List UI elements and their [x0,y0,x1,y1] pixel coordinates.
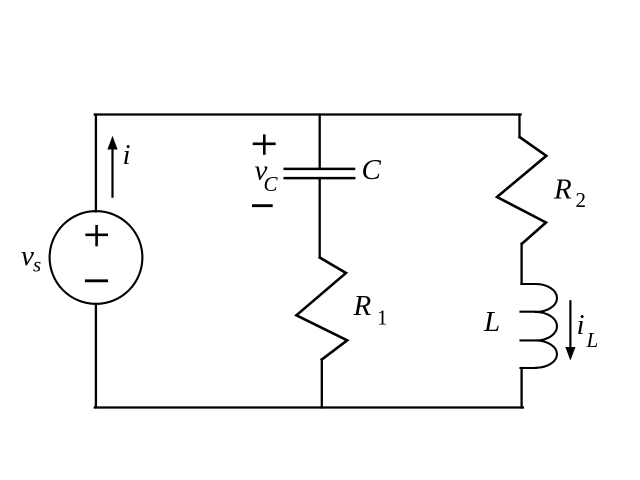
plus sign above capacitor [254,136,274,154]
svg-text:1: 1 [377,306,388,330]
wire middle mid [319,178,321,257]
svg-text:C: C [362,154,382,186]
wire right top [518,115,520,138]
svg-text:L: L [586,328,599,352]
inductor L coil 1 [521,284,557,312]
svg-text:i: i [123,139,131,171]
svg-text:s: s [33,253,41,277]
current arrow iL [565,300,575,360]
minus sign below vC [253,204,271,207]
resistor R1 zigzag [296,258,347,360]
wire left top [95,115,97,212]
svg-text:L: L [483,306,500,338]
svg-text:i: i [577,309,585,341]
wire middle bottom [321,360,323,408]
resistor R2 zigzag [497,137,546,244]
svg-text:R: R [553,174,572,206]
plus sign inside source [87,226,107,245]
inductor bottom tail [521,367,536,369]
capacitor C top plate [285,168,354,171]
svg-text:R: R [353,290,372,322]
minus sign inside source [86,279,106,282]
inductor L coil 2 [536,312,557,341]
inductor cusp tick 2 [521,339,536,341]
current arrow i [107,136,117,198]
wire right bottom [520,368,522,408]
wire left bottom [95,304,97,408]
inductor cusp tick 1 [521,311,536,313]
capacitor C bottom plate [285,177,355,180]
wire bottom rail [95,406,523,408]
inductor L coil 3 [536,341,557,368]
wire right mid [520,244,522,283]
voltage source vs circle [50,211,143,304]
svg-text:C: C [264,172,279,196]
wire middle top [319,115,321,169]
wire top rail [95,113,521,115]
svg-text:2: 2 [576,188,587,212]
